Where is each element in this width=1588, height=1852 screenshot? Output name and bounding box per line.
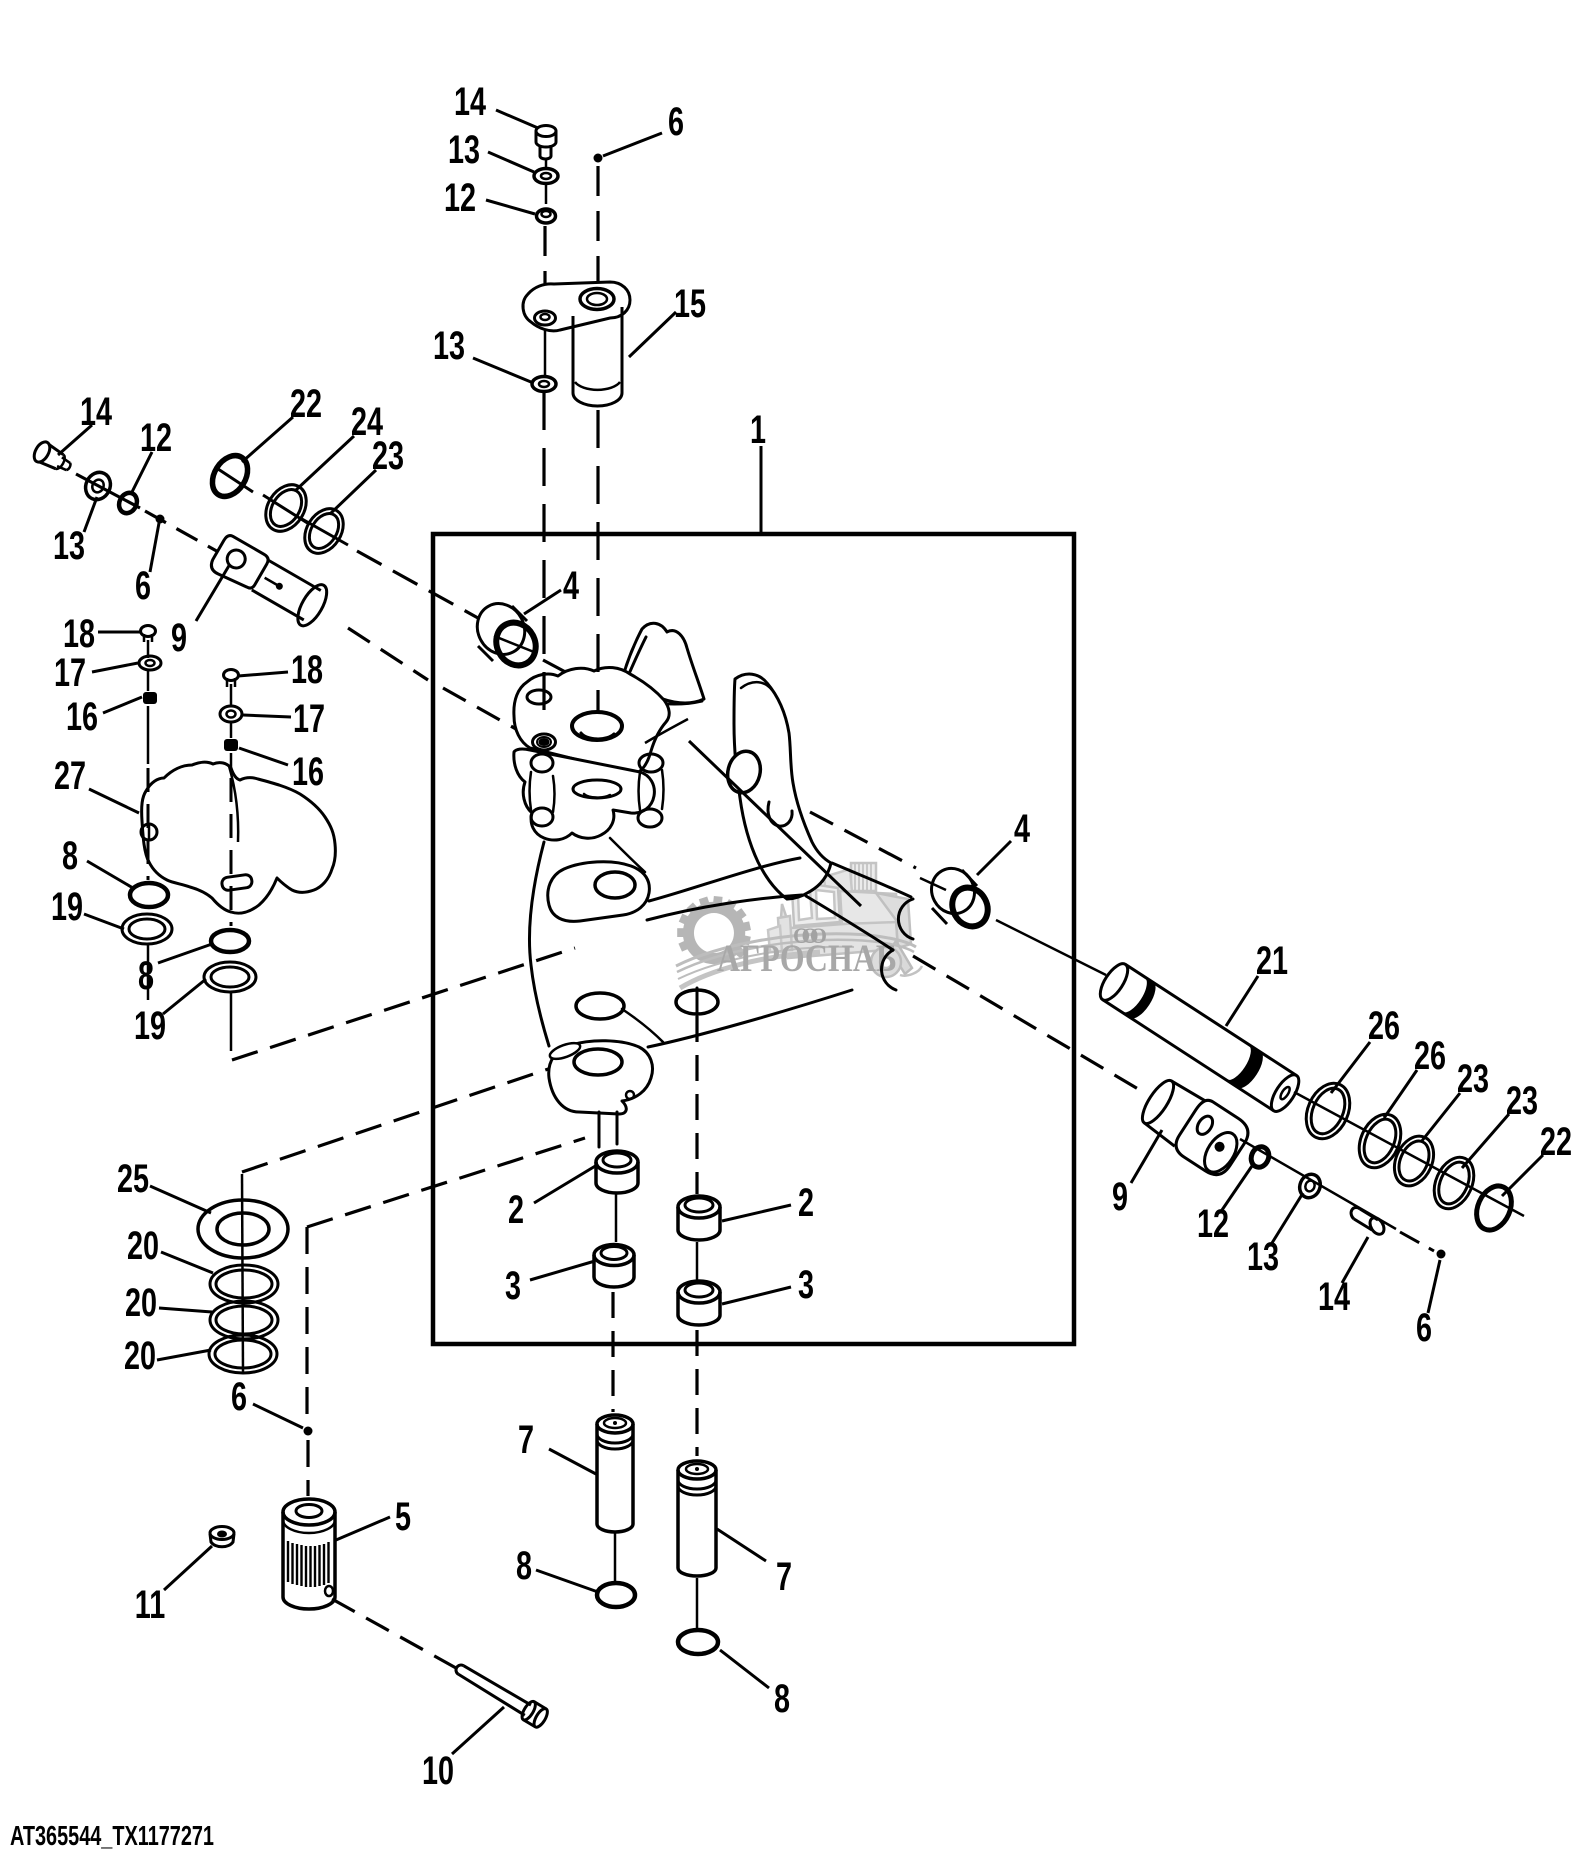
svg-text:13: 13 [448,127,480,172]
svg-text:AT365544_TX1177271: AT365544_TX1177271 [10,1821,214,1852]
svg-text:18: 18 [291,647,323,692]
svg-text:7: 7 [776,1554,792,1599]
svg-text:21: 21 [1256,938,1288,983]
svg-text:17: 17 [293,696,325,741]
svg-text:13: 13 [53,523,85,568]
svg-text:12: 12 [444,175,476,220]
svg-text:6: 6 [1416,1305,1432,1350]
svg-text:8: 8 [516,1543,532,1588]
svg-text:7: 7 [518,1417,534,1462]
svg-text:14: 14 [80,389,113,434]
svg-text:19: 19 [51,884,83,929]
svg-text:2: 2 [508,1187,524,1232]
svg-text:6: 6 [668,99,684,144]
svg-text:14: 14 [454,79,487,124]
svg-text:22: 22 [1540,1119,1572,1164]
svg-text:4: 4 [1014,806,1031,851]
svg-text:20: 20 [125,1280,157,1325]
svg-text:8: 8 [62,833,78,878]
svg-text:23: 23 [1457,1056,1489,1101]
svg-text:6: 6 [135,563,151,608]
svg-text:5: 5 [395,1494,411,1539]
svg-text:20: 20 [127,1223,159,1268]
svg-text:12: 12 [140,415,172,460]
svg-text:6: 6 [231,1374,247,1419]
svg-text:23: 23 [372,433,404,478]
svg-text:3: 3 [505,1263,521,1308]
svg-text:11: 11 [135,1582,165,1627]
svg-text:27: 27 [54,753,86,798]
svg-text:23: 23 [1506,1078,1538,1123]
svg-text:1: 1 [750,407,766,452]
svg-text:17: 17 [54,650,86,695]
svg-text:9: 9 [171,615,187,660]
svg-text:13: 13 [1247,1234,1279,1279]
svg-text:16: 16 [292,749,324,794]
svg-text:20: 20 [124,1333,156,1378]
svg-text:8: 8 [774,1676,790,1721]
svg-text:19: 19 [134,1003,166,1048]
svg-text:12: 12 [1197,1201,1229,1246]
svg-text:8: 8 [138,953,154,998]
svg-text:22: 22 [290,381,322,426]
svg-text:2: 2 [798,1180,814,1225]
svg-text:26: 26 [1414,1033,1446,1078]
svg-text:АГРОСНАБ: АГРОСНАБ [717,937,897,980]
svg-text:13: 13 [433,323,465,368]
svg-text:3: 3 [798,1262,814,1307]
svg-text:9: 9 [1112,1174,1128,1219]
svg-text:25: 25 [117,1156,149,1201]
svg-text:10: 10 [422,1748,454,1793]
svg-text:15: 15 [674,281,706,326]
svg-text:4: 4 [563,563,580,608]
svg-text:16: 16 [66,694,98,739]
svg-text:26: 26 [1368,1003,1400,1048]
svg-text:14: 14 [1318,1274,1351,1319]
